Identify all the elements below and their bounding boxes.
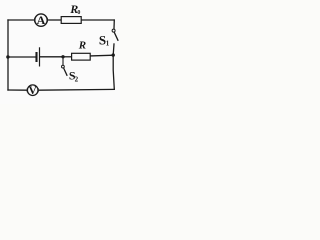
wire top: ammeter to R0 box	[48, 19, 62, 21]
label R	[78, 39, 86, 51]
wire middle: battery to node J1	[40, 56, 63, 58]
svg-text:2: 2	[75, 76, 79, 84]
voltmeter V	[27, 85, 38, 97]
resistor R0 (box)	[61, 17, 81, 24]
ammeter A	[35, 13, 48, 27]
wire left rail	[7, 20, 9, 90]
wire right rail upper (to switch S1)	[113, 20, 115, 29]
wire top: left corner to ammeter	[8, 19, 35, 21]
label R0	[69, 2, 80, 16]
node J2 (junction dot at right rail)	[112, 53, 115, 56]
svg-text:V: V	[29, 85, 38, 97]
wire middle: node J1 to resistor R	[63, 56, 71, 58]
svg-text:A: A	[37, 13, 46, 27]
switch S1	[112, 29, 118, 41]
node J1 (junction dot on middle wire)	[61, 55, 64, 58]
wire bottom: left corner to voltmeter	[8, 89, 27, 91]
node J3 (junction dot at left rail)	[6, 55, 9, 58]
wire middle: left rail to battery	[8, 56, 36, 58]
wire bottom: voltmeter to right corner	[38, 88, 114, 91]
svg-text:1: 1	[106, 40, 110, 48]
svg-text:0: 0	[77, 10, 80, 16]
svg-text:R: R	[78, 39, 86, 51]
label S2	[69, 69, 79, 84]
switch S2	[62, 57, 68, 76]
wire right rail lower (below switch S1)	[113, 44, 114, 89]
wire middle: resistor R to right rail	[91, 54, 114, 57]
resistor R (box)	[72, 53, 91, 60]
label S1	[99, 32, 110, 47]
battery B1	[37, 47, 40, 66]
wire top: R0 box to top-right corner	[82, 19, 114, 21]
